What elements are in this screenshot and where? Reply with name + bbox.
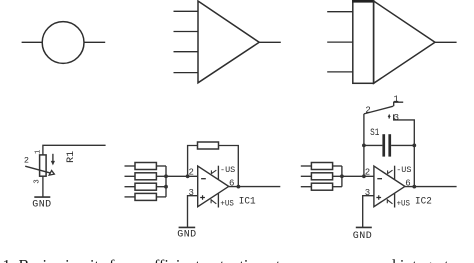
wire from capacitor C right bbox=[391, 144, 414, 146]
plus sign bbox=[376, 195, 381, 200]
wire input row1 bbox=[301, 165, 312, 167]
wire input 1 bbox=[327, 11, 353, 13]
wire input 1 bbox=[174, 10, 199, 12]
wire stub row1 bbox=[333, 165, 342, 167]
supply pin -US bbox=[217, 166, 219, 180]
resistor R row2 bbox=[311, 173, 332, 180]
op-amp IC2 triangle bbox=[374, 166, 405, 207]
junction bus row2 bbox=[340, 174, 344, 178]
resistor R row3 bbox=[311, 183, 332, 190]
integrator top bar bbox=[352, 0, 374, 3]
wire stub row1 bbox=[156, 165, 166, 167]
minus sign bbox=[201, 178, 206, 180]
minus sign bbox=[377, 178, 382, 180]
resistor R row1 bbox=[311, 163, 332, 170]
switch S1 lever bbox=[364, 106, 393, 114]
output wire bbox=[405, 186, 457, 188]
junction capacitor right bbox=[412, 144, 416, 148]
wire stub row4 bbox=[156, 196, 166, 198]
bus vertical bbox=[165, 166, 167, 197]
bus vertical bbox=[341, 166, 343, 187]
feedback resistor bbox=[198, 142, 219, 149]
output wire bbox=[229, 186, 281, 188]
svg-text:3: 3 bbox=[33, 179, 41, 184]
wire input 2 bbox=[174, 31, 199, 33]
junction output node bbox=[237, 185, 241, 189]
resistor R row4 bbox=[135, 193, 156, 200]
wire stub row2 bbox=[156, 175, 166, 177]
amplifier triangle bbox=[374, 1, 435, 83]
wire bus to pin2 bbox=[166, 175, 198, 177]
svg-text:2: 2 bbox=[365, 106, 370, 116]
svg-text:3: 3 bbox=[394, 113, 399, 123]
integrator rectangle bbox=[353, 0, 374, 83]
junction output node bbox=[412, 185, 416, 189]
capacitor left plate bbox=[382, 134, 385, 156]
wire input row3 bbox=[125, 186, 136, 188]
wire input row4 bbox=[125, 196, 136, 198]
op-amp IC1 triangle bbox=[198, 166, 229, 207]
wire stub row3 bbox=[156, 186, 166, 188]
wire input horizontal bbox=[43, 145, 106, 155]
switch actuate arrow bbox=[388, 116, 390, 119]
svg-text:6: 6 bbox=[405, 179, 410, 189]
ground bar bbox=[34, 196, 50, 198]
wire input row1 bbox=[125, 165, 136, 167]
feedback wire to output bbox=[219, 146, 239, 187]
svg-text:GND: GND bbox=[353, 231, 372, 242]
junction feedback tap bbox=[186, 174, 190, 178]
wire input 3 bbox=[327, 71, 353, 73]
junction bus row2 bbox=[164, 174, 168, 178]
ground bar bbox=[179, 226, 196, 228]
feedback vertical left bbox=[363, 114, 365, 176]
svg-text:+US: +US bbox=[220, 199, 233, 209]
svg-text:2: 2 bbox=[365, 167, 370, 177]
potentiometer wiper arrow bbox=[25, 166, 51, 173]
wire input 3 bbox=[174, 51, 199, 53]
wire bbox=[22, 41, 42, 43]
wire to capacitor C left bbox=[364, 144, 383, 146]
svg-text:2: 2 bbox=[189, 167, 194, 177]
svg-text:6: 6 bbox=[229, 179, 234, 189]
svg-text:S1: S1 bbox=[370, 128, 379, 139]
svg-text:3: 3 bbox=[365, 188, 370, 198]
junction feedback tap bbox=[362, 174, 366, 178]
wire stub row3 bbox=[333, 186, 342, 188]
wire bus to pin2 bbox=[342, 175, 374, 177]
supply pin -US bbox=[394, 166, 396, 180]
resistor R row1 bbox=[135, 163, 156, 170]
switch contact 1 bbox=[394, 102, 404, 106]
wire to ground bbox=[42, 176, 44, 197]
svg-text:2: 2 bbox=[24, 155, 29, 165]
wire input 4 bbox=[174, 72, 199, 74]
wire output bbox=[435, 41, 457, 43]
wire pin3 to ground bbox=[188, 196, 198, 227]
supply pin +US bbox=[394, 193, 396, 208]
amplifier triangle bbox=[198, 1, 259, 83]
resistor R row2 bbox=[135, 173, 156, 180]
svg-text:IC2: IC2 bbox=[415, 197, 432, 208]
switch contact 3 bbox=[394, 114, 415, 186]
svg-text:3: 3 bbox=[189, 188, 194, 198]
wire input 2 bbox=[327, 41, 353, 43]
wire input row2 bbox=[301, 175, 312, 177]
wire output bbox=[259, 41, 281, 43]
svg-text:1: 1 bbox=[393, 95, 398, 105]
wire input row3 bbox=[301, 186, 312, 188]
wire input row2 bbox=[125, 175, 136, 177]
svg-text:GND: GND bbox=[32, 199, 51, 210]
svg-text:1: 1 bbox=[35, 150, 43, 154]
svg-text:R1: R1 bbox=[66, 151, 77, 163]
wire stub row2 bbox=[333, 175, 342, 177]
wire bbox=[84, 41, 105, 43]
junction capacitor left bbox=[362, 144, 366, 148]
wire pin3 to ground bbox=[363, 196, 374, 228]
svg-text:-US: -US bbox=[220, 165, 235, 175]
feedback wire up bbox=[188, 146, 198, 177]
svg-text:GND: GND bbox=[177, 230, 196, 241]
svg-text:IC1: IC1 bbox=[239, 197, 256, 208]
plus sign bbox=[200, 195, 205, 200]
resistor R row3 bbox=[135, 183, 156, 190]
circle body bbox=[42, 22, 84, 64]
svg-text:1. Basic circuits for coeffici: 1. Basic circuits for coefficient potent… bbox=[3, 258, 469, 263]
svg-text:-US: -US bbox=[396, 165, 411, 175]
supply pin +US bbox=[217, 193, 219, 208]
capacitor right plate bbox=[388, 134, 391, 156]
ground bar bbox=[356, 226, 372, 228]
set-value arrow bbox=[52, 154, 54, 162]
svg-text:+US: +US bbox=[397, 199, 410, 209]
potentiometer R1 body bbox=[40, 155, 47, 176]
junction bus row3 bbox=[164, 185, 168, 189]
